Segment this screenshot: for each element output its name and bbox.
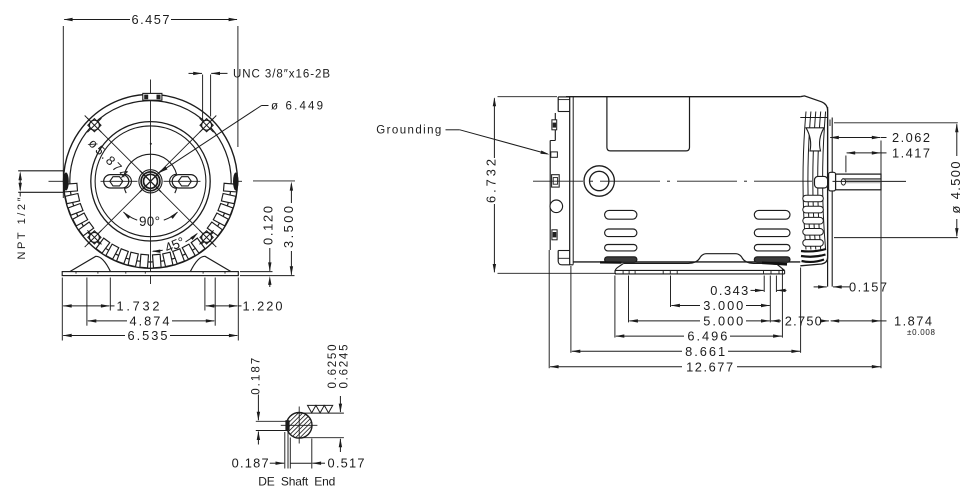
dimension 90 arc [164,212,178,220]
dimension UNC arrows [189,72,203,74]
side view nameplate [607,97,690,151]
dimension 5.000 [629,320,700,322]
front view face circle outer [91,122,210,241]
side view fan cover latch detail [806,128,824,151]
dimension 0.187 left [257,395,259,421]
front base top extension line [240,271,273,273]
svg-text:0.157: 0.157 [849,280,887,295]
svg-text:0.120: 0.120 [260,206,275,245]
dimension 4.500 [956,124,958,156]
side view grounding plate clip A [552,120,557,130]
side view drain plug bump [550,200,563,213]
side view shaft outline [836,174,881,190]
front view right conduit boss dark section [233,173,239,191]
side view grounding plate clip D [552,230,557,240]
side view grounding screw [584,166,614,196]
detail keyway flat [285,420,289,430]
front view small reference dot [150,143,152,145]
side view body top line [566,96,800,98]
dimension 2.062 [830,137,880,139]
svg-text:1.732: 1.732 [117,299,160,314]
dimension 0.517 bottom [290,462,311,464]
dimension 4.874 [88,320,127,322]
dimension NPT 1/2 leader [19,174,21,191]
svg-text:6.732: 6.732 [484,159,499,203]
dimension 90 arrows [170,212,178,219]
svg-text:1.874: 1.874 [894,314,932,329]
side view grounding plate clip B [551,152,558,157]
svg-text:4.874: 4.874 [130,314,170,329]
front view bolt hole upper-left [89,120,99,130]
dimension 2.750 [771,320,781,322]
dimension 45 arrows [190,233,198,240]
svg-text:2.062: 2.062 [892,130,930,145]
side view body bottom line [573,261,800,263]
front view horizontal centerline [49,180,64,182]
dimension 6.732 extension lines [498,96,558,98]
side view shaft keyway end radius [841,179,845,185]
side view fan cover profile [800,96,827,266]
side view fan cover louvers [803,195,824,202]
svg-text:2.750: 2.750 [785,314,822,329]
side view face plate [827,107,829,287]
side bottom extension lines [548,250,550,368]
svg-text:6.496: 6.496 [687,329,727,344]
svg-text:UNC 3/8″x16-2B: UNC 3/8″x16-2B [233,69,330,81]
shaft end extension line [880,141,882,369]
dimension 3.500 [290,184,292,203]
detail surface finish symbols [308,405,316,413]
side view end cap verticals [569,97,571,265]
front base bottom extension line [240,275,295,277]
svg-text:3.000: 3.000 [703,298,743,313]
front view face circle inner [95,126,206,237]
side view shaft hub [829,172,836,191]
side view grounding plate upper edge [554,113,556,141]
front view shaft circle outer [139,170,162,193]
front view left slot [104,175,129,188]
svg-text:3.500: 3.500 [281,206,296,248]
front view NPT boss dark section [63,173,69,191]
dimension 12.677 [550,366,682,368]
front view inner rim circle [70,101,231,262]
front view shaft circle mid [141,172,160,191]
dimension 0.157 [814,286,827,288]
svg-text:±0.008: ±0.008 [907,328,936,337]
side view grounding plate main edge [549,141,551,251]
side view right vent slots [754,210,790,219]
side view face plate top tick [829,120,831,127]
front view left slot hex nut [110,177,123,186]
side view grounding plate clip C [552,175,560,187]
svg-text:8.661: 8.661 [685,344,725,359]
front view shaft circle inner [144,174,158,188]
front view top lug [143,93,162,100]
dimension 6.457 extension lines [62,26,64,198]
dimension 45 arc [186,234,197,242]
detail bottom extension line [300,437,344,439]
front view bolt hole lower-right [202,232,212,242]
dimension 3.000 [671,305,700,307]
front view base plate [62,272,238,276]
side view foot left tip [615,264,623,272]
front bottom extension lines [61,278,63,341]
dimension 6.535 [63,335,125,337]
dimension 1.732 [63,305,109,307]
side view shell bottom thick left [600,261,622,264]
detail bottom extension verticals [284,432,286,469]
svg-text:6.535: 6.535 [128,328,168,343]
dimension 4.500 extension lines [834,122,958,124]
detail top extension line [298,412,344,414]
dimension 6.449 leader [262,105,269,107]
front view shaft boss scalloped arc [124,188,126,193]
svg-text:90°: 90° [139,214,160,229]
side view grounding plate step [550,140,555,142]
front view vertical centerline [150,80,152,285]
svg-text:6.457: 6.457 [132,12,170,27]
front view NPT boss lines [18,170,63,172]
front view bolt hole upper-right [202,120,212,130]
front view outer shell circle [64,94,238,268]
svg-text:1.417: 1.417 [892,146,930,161]
front view right foot [190,256,231,271]
svg-text:0.517: 0.517 [328,456,365,471]
detail centerlines [281,424,318,426]
front view right slot [172,175,197,188]
front view left slot centerline [101,180,133,182]
svg-text:Grounding: Grounding [376,125,441,137]
svg-text:0.187: 0.187 [251,358,263,395]
dimension 0.120 [269,248,271,271]
side view shaft centerline [833,180,907,182]
dimension 8.661 [572,350,682,352]
side view shell bottom thick right [762,263,787,265]
front view shaft X mark [140,171,161,192]
front view left foot [70,256,111,271]
svg-text:1.220: 1.220 [243,299,283,314]
svg-text:12.677: 12.677 [686,359,733,374]
dimension 0.6250/0.6245 [339,396,341,412]
dimension 1.874 [831,320,881,322]
svg-text:0.343: 0.343 [710,283,748,298]
side view shaft keyway shading [846,180,881,184]
side view left vent slots [605,210,637,219]
front view bolt hole lower-left [89,232,99,242]
front view cooling fins [64,183,78,192]
front view diagonal centerline 45-225 [85,116,217,248]
svg-text:ø 4.500: ø 4.500 [948,162,963,214]
dimension UNC leader lines [202,75,204,120]
side view centerline [533,180,583,182]
dimension 0.343 [751,289,764,291]
dimension 6.496 [616,335,684,337]
side view shaft keyway line [842,178,881,180]
label Grounding leader [446,129,460,131]
dimension 1.417 [847,152,881,154]
side view foot band ticks [622,271,624,274]
side view foot base band [615,269,785,271]
side view fan cover ribs [803,112,806,250]
side view end cap outer edge [557,97,559,112]
dimension 6.457 [64,19,130,21]
detail keyway extension lines [256,420,289,422]
front view right slot hex nut [178,177,191,186]
side view fan cover inner top line [800,117,827,119]
dimension 6.732 [493,98,495,158]
svg-text:5.000: 5.000 [703,314,743,329]
svg-text:0.187: 0.187 [232,456,269,471]
dimension 1.417 extension line [845,156,847,173]
side view fan cover hub tab [815,176,828,188]
front view right slot centerline [169,180,201,182]
side view foot top edge [623,254,766,264]
svg-text:DE Shaft End: DE Shaft End [258,474,335,488]
dimension 1.220 [206,305,238,307]
side view fan cover bottom louvers dark [801,249,826,251]
side view foot right tip [767,263,785,270]
front view diagonal centerline 135-315 [85,116,217,248]
